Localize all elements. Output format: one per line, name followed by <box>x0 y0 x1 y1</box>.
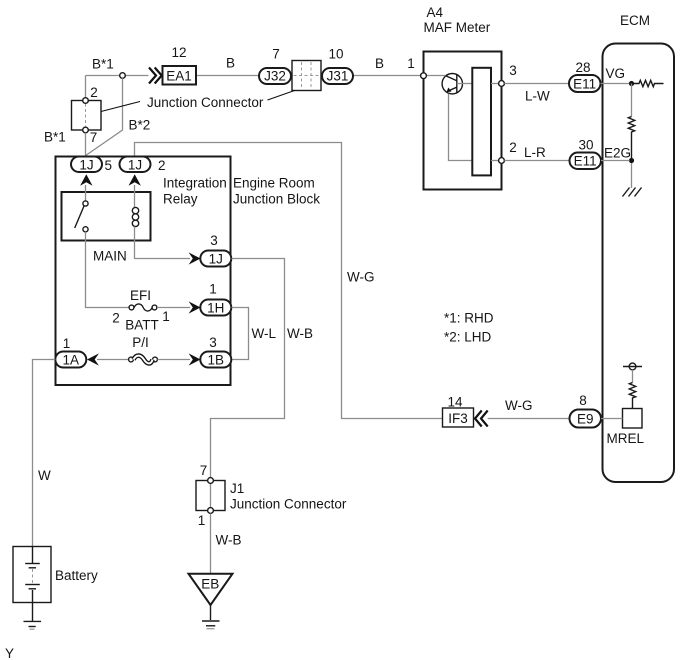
svg-text:3: 3 <box>509 63 517 78</box>
connector 1J pin 2 <box>120 157 151 173</box>
svg-text:J1: J1 <box>230 481 244 496</box>
svg-text:W-B: W-B <box>216 533 242 548</box>
node B*1 junction (open circle) <box>120 73 126 79</box>
fuse EFI <box>129 305 134 310</box>
svg-text:1: 1 <box>162 309 170 324</box>
engine room junction block box <box>56 157 231 386</box>
pin 1 circle <box>421 73 427 79</box>
connector E9 <box>570 410 602 428</box>
svg-text:1J: 1J <box>209 252 223 267</box>
svg-text:7: 7 <box>200 463 208 478</box>
junction connector block (dashed) <box>292 61 321 91</box>
wire element to pin2 <box>491 160 499 162</box>
svg-text:E2G: E2G <box>604 146 631 161</box>
svg-text:J32: J32 <box>264 69 286 84</box>
connector IF3 <box>443 408 474 427</box>
connector J31 <box>322 68 353 84</box>
svg-text:30: 30 <box>578 138 593 153</box>
resistor horizontal <box>634 80 664 86</box>
relay switch contact bottom <box>83 227 88 232</box>
node E2G <box>629 158 634 163</box>
svg-text:1J: 1J <box>79 158 93 173</box>
svg-text:1: 1 <box>209 282 217 297</box>
svg-text:8: 8 <box>579 393 587 408</box>
wire 1J3 to W-B down to J1 <box>211 259 285 481</box>
wire W-G to E9 <box>488 418 570 420</box>
pin circle 7 <box>83 127 89 133</box>
svg-text:1: 1 <box>198 513 206 528</box>
svg-text:L-W: L-W <box>525 89 550 104</box>
leader line to dashed junction block <box>268 91 295 101</box>
connector 1A <box>55 352 86 368</box>
wire L-R <box>504 160 569 162</box>
connector E11 pin 30 <box>570 153 602 170</box>
svg-text:IF3: IF3 <box>448 411 468 426</box>
svg-text:Junction Block: Junction Block <box>233 192 320 207</box>
svg-text:P/I: P/I <box>132 335 149 350</box>
svg-text:J31: J31 <box>327 69 349 84</box>
wire EFI to 1H <box>157 307 190 309</box>
wire node to ground <box>631 163 633 188</box>
svg-text:Relay: Relay <box>163 192 198 207</box>
arrow into 1B <box>189 353 201 365</box>
leader line to B*1 box <box>101 102 140 112</box>
svg-text:3: 3 <box>210 233 218 248</box>
svg-text:B*1: B*1 <box>92 57 114 72</box>
svg-text:EB: EB <box>201 577 219 592</box>
svg-text:1A: 1A <box>63 353 80 368</box>
svg-text:MREL: MREL <box>607 431 645 446</box>
arrow into 1H <box>189 301 201 313</box>
svg-text:EFI: EFI <box>130 288 151 303</box>
wire arrow to coil <box>134 185 136 208</box>
pin 2 circle <box>499 158 505 164</box>
svg-text:28: 28 <box>575 60 590 75</box>
battery box <box>13 547 51 603</box>
svg-text:L-R: L-R <box>524 145 546 160</box>
svg-text:1H: 1H <box>207 301 224 316</box>
MAF meter box <box>424 52 502 190</box>
arrow left out of 1A <box>87 353 99 365</box>
svg-text:2: 2 <box>158 158 166 173</box>
svg-text:2: 2 <box>90 85 98 100</box>
svg-text:1J: 1J <box>128 158 142 173</box>
svg-text:5: 5 <box>105 158 113 173</box>
junction connector B*1 box <box>72 101 102 131</box>
svg-text:Integration: Integration <box>163 176 227 191</box>
wire switch to EFI fuse <box>86 232 130 308</box>
wire to resistor <box>632 370 634 383</box>
svg-text:VG: VG <box>606 66 626 81</box>
pin 3 circle <box>499 81 505 87</box>
wire J1 to EB <box>210 514 212 574</box>
chevron arrows into EA1 <box>149 68 162 84</box>
svg-text:W: W <box>38 468 51 483</box>
pin circle 2 <box>83 98 89 104</box>
svg-text:B*1: B*1 <box>44 130 66 145</box>
wire E9 to MREL <box>601 418 623 420</box>
svg-text:*1: RHD: *1: RHD <box>444 311 494 326</box>
svg-text:B: B <box>375 56 384 71</box>
relay coil <box>132 207 138 213</box>
chevron arrows into IF3 <box>475 411 488 427</box>
wire transistor to element <box>457 83 473 85</box>
MREL circuit: terminal circle <box>629 363 636 370</box>
wire E2G to node <box>601 160 630 162</box>
svg-text:Battery: Battery <box>55 568 98 583</box>
wire from B*1 box to 1J pin 5 <box>85 133 87 156</box>
arrow into 1J pin3 <box>189 252 201 264</box>
wire EB to ground <box>210 605 212 621</box>
fusible link P/I <box>129 357 134 362</box>
arrow up into 1J pin5 <box>80 174 92 186</box>
connector 1J pin 5 <box>71 157 102 173</box>
wire coil to 1J pin3 <box>135 227 191 259</box>
svg-text:2: 2 <box>112 311 120 326</box>
svg-text:7: 7 <box>272 47 280 62</box>
svg-text:BATT: BATT <box>125 318 159 333</box>
svg-text:*2: LHD: *2: LHD <box>444 330 492 345</box>
wire P/I to 1B <box>158 359 191 361</box>
svg-text:B: B <box>226 56 235 71</box>
svg-text:10: 10 <box>328 47 343 62</box>
svg-text:ECM: ECM <box>620 13 650 28</box>
svg-text:7: 7 <box>90 130 98 145</box>
relay switch blade <box>75 206 84 228</box>
svg-text:W-B: W-B <box>287 326 313 341</box>
dotted link inside B*1 box <box>85 104 87 128</box>
wire VG inside ECM <box>601 83 630 85</box>
wire 1J pin2 to W-G run <box>135 143 443 419</box>
wire element to pin3 <box>491 83 499 85</box>
resistor vertical <box>628 117 634 159</box>
svg-text:E11: E11 <box>574 154 597 169</box>
svg-text:Junction Connector: Junction Connector <box>230 497 347 512</box>
svg-text:MAF Meter: MAF Meter <box>424 20 491 35</box>
svg-text:1: 1 <box>407 56 415 71</box>
integration relay box <box>62 192 151 241</box>
wire arrow to P/I <box>97 359 129 361</box>
node VG <box>629 81 634 86</box>
wire VG to E2G <box>631 84 633 117</box>
wire B*1 vertical to junction connector <box>85 76 87 99</box>
svg-text:12: 12 <box>171 45 186 60</box>
wire B*2 from node down and diagonal to 1J pin 5 <box>86 78 123 155</box>
wire arrow to switch <box>85 185 87 201</box>
connector J32 <box>259 68 291 84</box>
ground symbol EB <box>202 620 220 622</box>
svg-text:E11: E11 <box>573 76 596 91</box>
battery internals <box>32 547 34 564</box>
ground EB triangle <box>189 574 233 605</box>
MREL driver box <box>623 409 643 429</box>
svg-text:W-G: W-G <box>347 270 375 285</box>
svg-text:2: 2 <box>509 140 517 155</box>
ECM box <box>603 44 675 483</box>
connector E11 pin 28 <box>569 75 601 92</box>
transistor <box>442 74 462 94</box>
wire L-W <box>504 83 569 85</box>
svg-text:W-L: W-L <box>252 326 277 341</box>
connector J1 <box>196 481 225 511</box>
ground battery <box>24 620 42 622</box>
connector 1B <box>200 352 231 368</box>
svg-text:A4: A4 <box>427 5 444 20</box>
arrow up into 1J pin2 <box>129 174 141 186</box>
svg-text:E9: E9 <box>577 411 594 426</box>
svg-text:Junction Connector: Junction Connector <box>147 95 264 110</box>
svg-text:B*2: B*2 <box>129 118 151 133</box>
resistor MREL <box>629 383 635 409</box>
connector EA1 <box>163 66 197 85</box>
svg-text:3: 3 <box>209 335 217 350</box>
svg-text:MAIN: MAIN <box>93 249 127 264</box>
svg-text:Y: Y <box>5 646 14 660</box>
wire W-L from 1H to 1B <box>232 308 249 360</box>
connector 1J pin 3 <box>200 251 231 267</box>
svg-text:14: 14 <box>447 395 463 410</box>
wire 1A to battery <box>33 360 56 547</box>
svg-text:W-G: W-G <box>505 398 533 413</box>
svg-text:1B: 1B <box>208 353 225 368</box>
sensing element <box>472 68 491 176</box>
svg-text:1: 1 <box>63 336 71 351</box>
relay switch contact top <box>83 201 88 206</box>
svg-text:Engine Room: Engine Room <box>233 176 315 191</box>
wire B horizontal top <box>86 75 422 77</box>
ground E2G (diagonal) <box>623 188 642 197</box>
svg-text:EA1: EA1 <box>166 69 192 84</box>
wire emitter down <box>449 94 473 161</box>
connector 1H <box>200 300 231 316</box>
